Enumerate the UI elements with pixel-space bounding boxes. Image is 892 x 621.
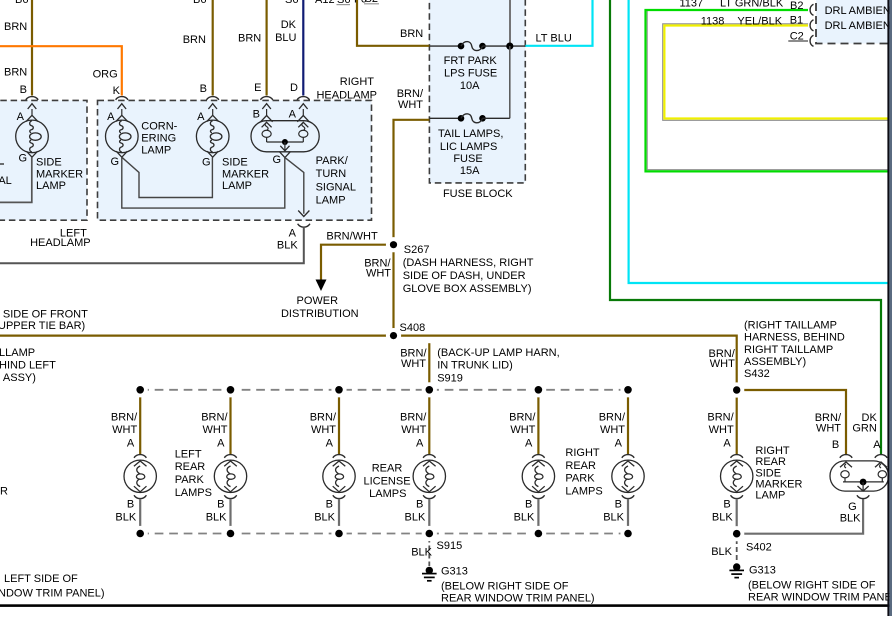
svg-text:A: A [416, 438, 424, 450]
frt park lps fuse 10A [429, 45, 461, 47]
node BLK junction 5 [531, 526, 546, 541]
svg-text:WHT: WHT [202, 424, 227, 436]
svg-text:MARKER: MARKER [36, 168, 83, 180]
svg-text:B: B [326, 499, 333, 511]
svg-text:RIGHT TAILLAMP: RIGHT TAILLAMP [744, 344, 833, 356]
svg-text:LAMPS: LAMPS [369, 488, 406, 500]
svg-text:BRN: BRN [238, 32, 261, 44]
svg-text:LAMP: LAMP [36, 180, 66, 192]
svg-text:BLK: BLK [411, 547, 432, 559]
svg-text:REAR: REAR [372, 463, 403, 475]
wire BRN/WHT to power dist [321, 245, 394, 280]
lamp rear 4 [413, 460, 445, 492]
svg-text:1138: 1138 [701, 15, 725, 27]
lamp rear 3 [323, 460, 355, 492]
svg-text:BRN: BRN [4, 21, 27, 33]
lamp cornering [106, 120, 139, 153]
node S919 junction 6 [620, 382, 635, 397]
svg-text:DRL AMBIENT: DRL AMBIENT [825, 5, 892, 17]
connector rear lamp 2 [224, 455, 237, 467]
lamp rear 6 [612, 460, 644, 492]
svg-text:BLK: BLK [314, 512, 335, 524]
svg-text:(DASH HARNESS, RIGHT: (DASH HARNESS, RIGHT [403, 257, 534, 269]
svg-text:HEADLAMP: HEADLAMP [30, 237, 91, 249]
svg-text:B: B [20, 84, 27, 96]
lamp rear 5 [522, 460, 554, 492]
node S402 junction [729, 526, 744, 541]
svg-text:ASSEMBLY): ASSEMBLY) [744, 356, 806, 368]
svg-text:SIDE OF DASH, UNDER: SIDE OF DASH, UNDER [403, 270, 526, 282]
svg-text:A: A [615, 438, 623, 450]
svg-text:K: K [113, 85, 121, 97]
wire BLK lamp 6 [627, 499, 629, 534]
svg-text:S6: S6 [285, 0, 298, 6]
wire left marker ground [0, 157, 32, 202]
svg-text:WHT: WHT [401, 424, 426, 436]
svg-text:LT GRN/BLK: LT GRN/BLK [720, 0, 784, 10]
connector rear lamp 5 bottom [532, 495, 544, 498]
svg-text:E: E [254, 82, 261, 94]
connector rear lamp 3 [333, 455, 346, 467]
lamp rear 7 [721, 460, 753, 492]
svg-text:RIGHT: RIGHT [565, 447, 600, 459]
svg-text:REAR: REAR [565, 460, 596, 472]
wire BRN/WHT to S919 [428, 343, 430, 390]
svg-text:RIGHT: RIGHT [755, 445, 790, 457]
wire BLK lamp 5 [537, 499, 539, 534]
svg-text:A: A [873, 439, 881, 451]
svg-text:BLK: BLK [277, 239, 298, 251]
svg-text:A: A [525, 438, 533, 450]
svg-text:SIDE: SIDE [222, 156, 248, 168]
svg-text:A: A [723, 438, 731, 450]
svg-text:10A: 10A [460, 80, 480, 92]
svg-text:SIDE OF FRONT: SIDE OF FRONT [3, 308, 88, 320]
svg-text:BRN: BRN [4, 67, 27, 79]
DRL ambient sensor box [816, 0, 892, 44]
wire cornering to side marker ground [122, 157, 213, 197]
svg-text:A: A [289, 108, 297, 120]
svg-text:15A: 15A [460, 165, 480, 177]
svg-text:BLK: BLK [206, 512, 227, 524]
svg-text:WHT: WHT [600, 424, 625, 436]
svg-text:B: B [525, 499, 532, 511]
svg-text:B1: B1 [790, 15, 803, 27]
node S919 junction 2 [223, 382, 238, 397]
svg-text:DRL AMBIENT: DRL AMBIENT [825, 20, 892, 32]
tail pill internals [841, 464, 887, 491]
svg-text:LAMPS: LAMPS [565, 486, 602, 498]
lamp park/turn signal pill [251, 121, 319, 152]
connector rear lamp 6 bottom [622, 495, 634, 498]
svg-text:LICENSE: LICENSE [363, 475, 410, 487]
svg-text:G313: G313 [441, 566, 468, 578]
wire C2 stub [788, 40, 808, 42]
lamp entry arrow left marker [26, 115, 38, 121]
wire BRN side marker B [212, 0, 214, 96]
svg-text:BRN: BRN [183, 34, 206, 46]
svg-text:BLK: BLK [711, 546, 732, 558]
svg-text:(RIGHT TAILLAMP: (RIGHT TAILLAMP [744, 319, 837, 331]
wire BRN/WHT lamp 3 [338, 392, 340, 454]
splice S267 [386, 237, 401, 252]
wire YEL/BLK stripe [663, 24, 888, 121]
svg-text:WHT: WHT [311, 424, 336, 436]
node S919 junction 4 [422, 382, 437, 397]
svg-text:REAR WINDOW TRIM PANE: REAR WINDOW TRIM PANE [748, 592, 892, 604]
connector rear lamp 5 [532, 455, 545, 467]
svg-text:DISTRIBUTION: DISTRIBUTION [281, 308, 359, 320]
wire BRN to frt park fuse [357, 0, 429, 46]
wire BRN/WHT S432 to marker [736, 390, 738, 454]
park/turn ground arrow [279, 152, 290, 158]
connector rear lamp 7 bottom [731, 495, 743, 498]
svg-text:TAIL LAMPS,: TAIL LAMPS, [438, 128, 503, 140]
node BLK junction 4 [422, 526, 437, 541]
splice S432 [729, 382, 744, 397]
svg-text:BLK: BLK [405, 512, 426, 524]
svg-text:LPS FUSE: LPS FUSE [444, 68, 497, 80]
svg-text:LAMP: LAMP [141, 145, 171, 157]
svg-text:MARKER: MARKER [222, 168, 269, 180]
svg-text:(BELOW RIGHT SIDE OF: (BELOW RIGHT SIDE OF [748, 580, 876, 592]
wire BLK lamp 2 [229, 499, 231, 534]
node BLK junction 1 [133, 526, 148, 541]
svg-text:A: A [326, 438, 334, 450]
svg-text:POWER: POWER [297, 295, 339, 307]
svg-text:BRN/: BRN/ [599, 412, 626, 424]
svg-text:B: B [832, 439, 839, 451]
svg-text:TURN: TURN [316, 168, 347, 180]
right headlamp box [98, 100, 372, 220]
right page border [887, 0, 889, 616]
svg-text:D: D [290, 82, 298, 94]
pin B1 arc [810, 20, 813, 31]
svg-text:LAMP: LAMP [222, 180, 252, 192]
top edge cut labels [15, 0, 379, 6]
svg-text:WHT: WHT [816, 423, 841, 435]
connector turn D [297, 97, 309, 116]
node BLK junction 6 [620, 526, 635, 541]
wire BLK to front tie bar [0, 228, 304, 263]
svg-text:G: G [18, 152, 27, 164]
svg-text:LIC LAMPS: LIC LAMPS [440, 141, 497, 153]
svg-text:BRN/: BRN/ [707, 412, 734, 424]
wire DK GRN rear side marker [610, 0, 881, 454]
svg-text:REAR: REAR [175, 461, 206, 473]
svg-text:BRN: BRN [400, 28, 423, 40]
node BLK junction 2 [223, 526, 238, 541]
connector left marker B [26, 97, 38, 116]
svg-text:B2: B2 [790, 0, 803, 12]
svg-text:A: A [217, 438, 225, 450]
svg-text:BLK: BLK [603, 512, 624, 524]
svg-text:SIDE: SIDE [36, 156, 62, 168]
left edge cut mark [0, 163, 4, 165]
fuse block box [429, 0, 525, 183]
svg-text:HEADLAMP: HEADLAMP [316, 89, 377, 101]
svg-text:B: B [127, 499, 134, 511]
wire LT GRN/BLK stripe [647, 10, 887, 170]
connector rear lamp 1 [134, 455, 147, 467]
wire BRN park lamp E [266, 0, 268, 96]
wire BLK S402 dashed [736, 539, 738, 563]
wire DK BLU turn signal D [302, 0, 304, 96]
svg-text:BRN/: BRN/ [509, 412, 536, 424]
harness BLK dashed [140, 533, 628, 535]
svg-text:GRN: GRN [852, 423, 877, 435]
lamp entry arrow cornering [116, 115, 128, 121]
svg-text:BRN/: BRN/ [201, 412, 228, 424]
svg-text:S6: S6 [337, 0, 350, 6]
svg-text:IN TRUNK LID): IN TRUNK LID) [437, 360, 513, 372]
lamp entry arrow side marker 2 [207, 115, 219, 121]
svg-text:LAMP: LAMP [316, 195, 346, 207]
wire LT BLU from fuse [525, 0, 592, 46]
wire BLK S915 dashed [428, 538, 430, 567]
harness S919 dashed [140, 389, 628, 391]
svg-text:S2: S2 [365, 0, 378, 5]
svg-text:REAR WINDOW TRIM PANEL): REAR WINDOW TRIM PANEL) [441, 593, 595, 605]
svg-text:G: G [202, 156, 211, 168]
park/turn internals [261, 116, 310, 152]
connector rear lamp 3 bottom [333, 495, 345, 498]
svg-text:BRN/: BRN/ [111, 412, 138, 424]
wire BRN/WHT lamp 1 [139, 392, 141, 454]
svg-text:LT BLU: LT BLU [536, 32, 572, 44]
node S919 junction 3 [331, 382, 346, 397]
ground G313 left [422, 567, 437, 581]
svg-text:WHT: WHT [112, 424, 137, 436]
lamp right side marker [196, 120, 229, 153]
wire BLK lamp 1 [139, 499, 141, 534]
svg-text:B: B [200, 83, 207, 95]
node S919 junction 1 [133, 382, 148, 397]
svg-text:A: A [17, 111, 25, 123]
svg-text:WHT: WHT [398, 99, 423, 111]
svg-text:YEL/BLK: YEL/BLK [737, 15, 782, 27]
wire BLK lamp 4 [428, 499, 430, 534]
svg-text:S915: S915 [437, 540, 463, 552]
svg-text:S267: S267 [404, 244, 430, 256]
wire ground bus [122, 157, 285, 208]
connector rear lamp 7 [730, 455, 743, 467]
svg-text:A: A [197, 111, 205, 123]
svg-text:LEFT SIDE OF: LEFT SIDE OF [4, 573, 78, 585]
wire BRN/WHT S267 to S408 [392, 245, 394, 336]
svg-text:BLK: BLK [115, 512, 136, 524]
wire BLK lamp 3 [338, 499, 340, 534]
svg-text:ASSY): ASSY) [3, 372, 36, 384]
svg-text:S432: S432 [744, 368, 770, 380]
svg-text:G: G [110, 156, 119, 168]
svg-text:RIGHT: RIGHT [340, 76, 375, 88]
svg-text:B: B [253, 108, 260, 120]
svg-text:WHT: WHT [710, 358, 735, 370]
lamp rear 1 [124, 460, 156, 492]
connector rear lamp 4 bottom [423, 495, 435, 498]
wire ORG cornering K [0, 46, 122, 95]
lamp rear 2 [214, 460, 246, 492]
svg-text:A: A [127, 438, 135, 450]
wire BRN/WHT S408 bus [0, 336, 737, 390]
svg-text:BLK: BLK [840, 512, 861, 524]
wire BRN/WHT lamp 6 [627, 392, 629, 454]
svg-text:B: B [217, 499, 224, 511]
svg-text:B6: B6 [15, 0, 28, 6]
svg-text:B: B [416, 499, 423, 511]
svg-text:HARNESS, BEHIND: HARNESS, BEHIND [744, 332, 845, 344]
splice S408 [386, 328, 401, 343]
svg-text:FUSE BLOCK: FUSE BLOCK [443, 188, 513, 200]
svg-text:CORN-: CORN- [141, 120, 177, 132]
svg-text:WHT: WHT [510, 424, 535, 436]
connector A BLK [298, 224, 310, 227]
svg-text:B: B [615, 499, 622, 511]
lamp left side marker [16, 120, 49, 153]
svg-text:NDOW TRIM PANEL): NDOW TRIM PANEL) [0, 588, 105, 600]
node S919 junction 5 [531, 382, 546, 397]
lamp tail pill [830, 461, 889, 491]
svg-text:LLAMP: LLAMP [0, 347, 35, 359]
fuse junction node [506, 43, 513, 50]
svg-text:FRT PARK: FRT PARK [444, 55, 498, 67]
svg-text:UPPER TIE BAR): UPPER TIE BAR) [0, 320, 85, 332]
wire BRN/WHT S432 to tail pill [737, 390, 846, 454]
svg-text:FUSE: FUSE [453, 153, 482, 165]
svg-text:A12: A12 [315, 0, 335, 6]
tail pill connectors [840, 455, 887, 468]
svg-text:SIGNAL: SIGNAL [316, 181, 356, 193]
svg-text:R: R [0, 486, 8, 498]
svg-text:PARK: PARK [175, 474, 205, 486]
left headlamp box [0, 100, 87, 220]
svg-text:S919: S919 [437, 373, 463, 385]
wire BRN/WHT from tail fuse [394, 120, 430, 245]
svg-text:REAR: REAR [755, 456, 786, 468]
svg-text:1137: 1137 [680, 0, 704, 10]
svg-text:BLK: BLK [712, 512, 733, 524]
svg-text:(BACK-UP LAMP HARN,: (BACK-UP LAMP HARN, [437, 347, 559, 359]
svg-text:BRN/: BRN/ [400, 412, 427, 424]
power distribution arrow [316, 280, 327, 292]
svg-text:BLK: BLK [514, 512, 535, 524]
svg-text:WHT: WHT [401, 358, 426, 370]
svg-text:A: A [107, 111, 115, 123]
svg-text:B: B [723, 499, 730, 511]
wire YEL/BLK 1138 [664, 26, 887, 119]
wire BLK lamp 7 [736, 499, 738, 534]
svg-text:AL: AL [0, 175, 12, 187]
svg-text:BRN/WHT: BRN/WHT [326, 231, 378, 243]
svg-text:G: G [272, 154, 281, 166]
svg-text:BLU: BLU [275, 32, 296, 44]
wire BRN/WHT lamp 5 [537, 392, 539, 454]
wire LT GRN/BLK 1137 [646, 10, 888, 171]
wire BRN/WHT lamp 4 [428, 392, 430, 454]
svg-text:MARKER: MARKER [755, 479, 802, 491]
connector pill ground [857, 495, 869, 498]
svg-text:GLOVE BOX ASSEMBLY): GLOVE BOX ASSEMBLY) [403, 283, 532, 295]
svg-text:ERING: ERING [141, 133, 176, 145]
svg-text:LAMP: LAMP [755, 490, 785, 502]
connector rear lamp 1 bottom [134, 495, 146, 498]
svg-text:S408: S408 [400, 322, 426, 334]
svg-text:HIND LEFT: HIND LEFT [0, 360, 56, 372]
svg-text:ORG: ORG [93, 68, 118, 80]
wire BRN/WHT lamp 2 [229, 392, 231, 454]
wire BLK pill ground [737, 499, 863, 534]
svg-text:A: A [289, 228, 297, 240]
connector rear lamp 2 bottom [224, 495, 236, 498]
tail lamps lic lamps fuse 15A [429, 117, 461, 119]
svg-text:S402: S402 [746, 542, 772, 554]
svg-text:PARK: PARK [565, 473, 595, 485]
pin B2 arc [810, 4, 813, 15]
svg-text:C2: C2 [790, 31, 804, 43]
connector rear lamp 4 [423, 455, 436, 467]
connector rear lamp 6 [622, 455, 635, 467]
svg-text:B6: B6 [193, 0, 206, 6]
svg-text:PARK/: PARK/ [316, 155, 349, 167]
connector park E [260, 97, 272, 116]
svg-text:DK: DK [281, 19, 297, 31]
connector cornering K [116, 97, 128, 116]
wire grey fuse feed [509, 0, 511, 45]
svg-text:SIDE: SIDE [755, 467, 781, 479]
wire BRN left headlamp B [31, 0, 33, 96]
svg-text:LAMPS: LAMPS [175, 487, 212, 499]
svg-text:WHT: WHT [709, 424, 734, 436]
connector side marker B [207, 97, 219, 116]
svg-text:LEFT: LEFT [175, 449, 202, 461]
pin C2 arc [810, 35, 813, 46]
bottom page border [0, 604, 890, 607]
wire LT BLU loop [629, 0, 888, 283]
node BLK junction 3 [331, 526, 346, 541]
wire park/turn ground exit [285, 158, 304, 214]
ground G313 right [729, 563, 744, 577]
svg-text:BRN/: BRN/ [310, 412, 337, 424]
svg-text:WHT: WHT [366, 268, 391, 280]
svg-text:(BELOW RIGHT SIDE OF: (BELOW RIGHT SIDE OF [441, 581, 569, 593]
svg-text:G313: G313 [749, 565, 776, 577]
